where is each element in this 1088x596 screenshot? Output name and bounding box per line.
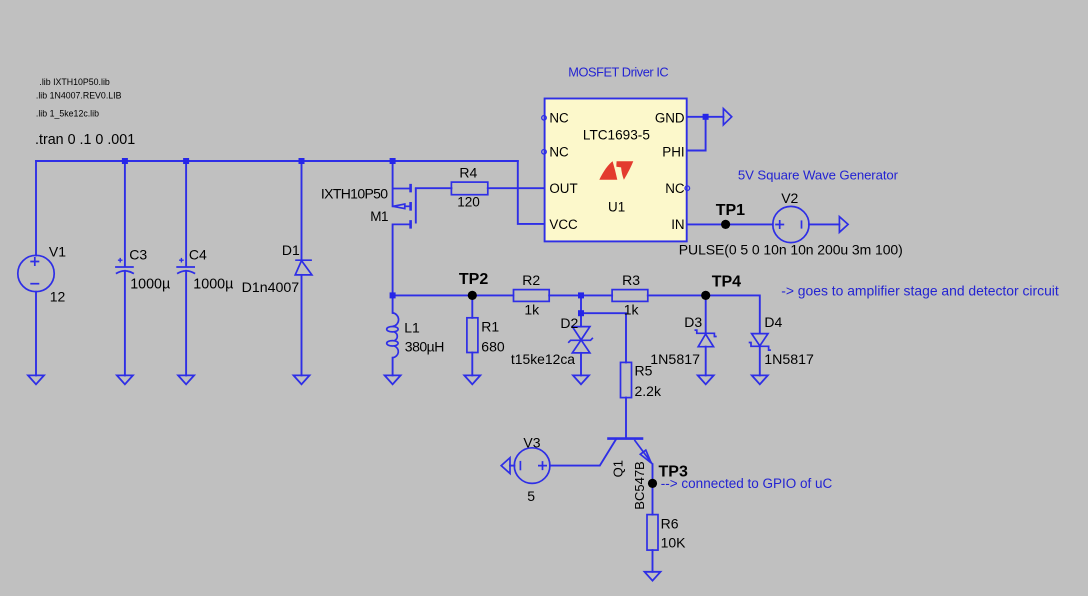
ground C4 [178, 375, 194, 384]
svg-text:5: 5 [527, 488, 535, 504]
svg-text:5V Square Wave Generator: 5V Square Wave Generator [738, 168, 899, 183]
testpoint TP3 [648, 479, 657, 488]
inductor L1 [387, 313, 399, 358]
svg-text:Q1: Q1 [611, 460, 626, 477]
svg-text:NC: NC [549, 145, 569, 160]
svg-text:1000µ: 1000µ [193, 277, 233, 293]
svg-text:M1: M1 [370, 209, 388, 224]
svg-text:R6: R6 [661, 515, 679, 531]
svg-text:R1: R1 [481, 319, 499, 335]
wire V1 top [35, 161, 37, 255]
svg-text:1k: 1k [624, 302, 640, 318]
svg-text:1k: 1k [524, 302, 540, 318]
junction node drain-L1-TP2row [390, 292, 396, 298]
junction node D2-R5 [578, 310, 584, 316]
svg-text:D1: D1 [282, 242, 300, 258]
junction node rail-C3 [122, 158, 128, 164]
transistor Q1 [607, 439, 652, 465]
wire R5 to Q1 collector [625, 398, 627, 439]
svg-text:MOSFET Driver IC: MOSFET Driver IC [568, 65, 668, 80]
ground D2 [573, 375, 589, 384]
svg-text:.tran 0 .1 0 .001: .tran 0 .1 0 .001 [35, 132, 135, 148]
resistor R1 [467, 318, 478, 353]
svg-text:NC: NC [549, 111, 569, 126]
wire Q1 emitter to TP3 to R6 [652, 464, 654, 514]
wire L1 bottom [392, 358, 394, 376]
testpoint TP2 [468, 291, 477, 300]
svg-text:V2: V2 [781, 190, 798, 206]
svg-text:t15ke12ca: t15ke12ca [511, 351, 575, 367]
wire L1 top [392, 295, 394, 313]
schottky diode D4 [749, 334, 771, 351]
svg-text:R2: R2 [522, 272, 540, 288]
junction node rail-D1 [299, 158, 305, 164]
svg-text:TP2: TP2 [459, 271, 488, 288]
capacitor C3 [115, 258, 134, 274]
wire PHI pin riser [687, 117, 706, 151]
svg-text:D2: D2 [560, 315, 578, 331]
wire GND pin to port arrow [687, 116, 724, 118]
svg-text:C3: C3 [129, 247, 147, 263]
junction node rail-M1 [390, 158, 396, 164]
svg-text:.lib 1_5ke12c.lib: .lib 1_5ke12c.lib [36, 108, 99, 118]
svg-text:R3: R3 [622, 272, 640, 288]
svg-text:PULSE(0 5 0 10n 10n 200u 3m 10: PULSE(0 5 0 10n 10n 200u 3m 100) [679, 242, 903, 258]
voltage source V3 [514, 448, 550, 484]
ground R6 [645, 572, 661, 581]
svg-text:D4: D4 [764, 314, 782, 330]
svg-text:IN: IN [671, 217, 684, 232]
svg-text:10K: 10K [661, 535, 687, 551]
wire V2 to port arrow [809, 223, 840, 225]
voltage source V2 [773, 206, 809, 242]
wire VCC branch [518, 161, 545, 224]
wire R3 to TP4 to D4 corner [648, 295, 760, 333]
wire C4 top [185, 161, 187, 267]
svg-text:120: 120 [457, 194, 480, 209]
svg-text:1N5817: 1N5817 [650, 352, 700, 368]
ground D3 [698, 375, 714, 384]
capacitor C4 [176, 258, 195, 274]
svg-text:D1n4007: D1n4007 [242, 280, 300, 296]
wire R1 bottom [471, 353, 473, 376]
port arrow V3 in [501, 458, 510, 474]
svg-text:680: 680 [481, 339, 505, 355]
wire IN pin to V2 [687, 223, 773, 225]
junction node D2 top [578, 292, 584, 298]
wire TP4 to D3 [705, 295, 707, 333]
wire V3 left port stub [510, 465, 514, 467]
svg-text:--> connected to GPIO of uC: --> connected to GPIO of uC [661, 476, 833, 491]
port arrow GND out [723, 109, 731, 125]
wire V1 bottom [35, 292, 37, 376]
resistor R5 [621, 362, 632, 397]
ground D4 [752, 375, 768, 384]
mosfet M1 [393, 184, 416, 229]
pin NC top-left [542, 116, 547, 121]
wire M1 drain to TP2 row [392, 224, 394, 295]
ground C3 [117, 375, 133, 384]
LT logo [599, 161, 633, 180]
wire R4 to OUT pin [488, 187, 545, 189]
svg-text:R4: R4 [459, 165, 477, 181]
diode D1 [295, 260, 312, 275]
svg-text:380µH: 380µH [405, 339, 444, 355]
wire M1 gate to R4 [416, 187, 452, 189]
svg-text:C4: C4 [189, 247, 207, 263]
svg-text:PHI: PHI [662, 145, 684, 160]
svg-text:1000µ: 1000µ [130, 277, 170, 293]
wire D1 bottom [301, 275, 303, 376]
wire D4 bottom [759, 346, 761, 375]
wire D2 riser [580, 295, 582, 326]
ground D1 [294, 375, 310, 384]
svg-text:NC: NC [665, 181, 685, 196]
svg-text:V1: V1 [49, 244, 66, 260]
svg-text:U1: U1 [608, 199, 625, 214]
junction node GND-PHI [703, 114, 709, 120]
testpoint TP1 [721, 220, 730, 229]
svg-text:BC547B: BC547B [632, 461, 647, 509]
wire R2 to R3 [549, 294, 612, 296]
IC U1 LTC1693-5 body [545, 99, 687, 242]
wire top 12V rail [36, 160, 518, 162]
svg-text:GND: GND [655, 111, 685, 126]
wire C3 bottom [124, 271, 126, 376]
wire node A to R5 [581, 313, 626, 362]
svg-text:.lib IXTH10P50.lib: .lib IXTH10P50.lib [39, 77, 110, 87]
svg-text:IXTH10P50: IXTH10P50 [321, 185, 388, 201]
svg-text:.lib 1N4007.REV0.LIB: .lib 1N4007.REV0.LIB [36, 90, 122, 100]
tvs diode D2 [568, 327, 593, 353]
resistor R2 [514, 290, 550, 302]
pin NC right [685, 186, 690, 191]
svg-text:1N5817: 1N5817 [764, 352, 814, 368]
svg-text:VCC: VCC [549, 217, 578, 232]
svg-text:TP1: TP1 [716, 202, 745, 219]
testpoint TP4 [701, 291, 710, 300]
svg-text:V3: V3 [523, 434, 540, 450]
svg-text:L1: L1 [404, 320, 420, 336]
wire V3 to Q1 base [550, 440, 616, 466]
svg-text:R5: R5 [635, 363, 653, 379]
resistor R3 [612, 290, 648, 302]
voltage source V1 [18, 255, 54, 291]
wire TP2 row left [393, 294, 514, 296]
wire D2 bottom [580, 353, 582, 376]
svg-text:D3: D3 [684, 314, 702, 330]
resistor R6 [647, 515, 658, 551]
wire C4 bottom [185, 271, 187, 376]
wire R6 bottom [652, 550, 654, 572]
pin NC mid-left [542, 150, 547, 155]
svg-text:OUT: OUT [549, 181, 577, 196]
ground L1 [385, 375, 401, 384]
ground R1 [464, 375, 480, 384]
resistor R4 [451, 182, 487, 195]
svg-text:2.2k: 2.2k [635, 383, 662, 399]
junction node rail-C4 [183, 158, 189, 164]
svg-text:12: 12 [50, 289, 66, 305]
svg-text:TP4: TP4 [712, 273, 741, 290]
svg-text:LTC1693-5: LTC1693-5 [583, 128, 650, 143]
wire D3 bottom [705, 347, 707, 376]
wire TP2 to R1 [471, 295, 473, 317]
wire D1 top [301, 161, 303, 260]
ground V1 [28, 375, 44, 384]
schottky diode D3 [695, 330, 717, 347]
svg-text:-> goes to amplifier stage and: -> goes to amplifier stage and detector … [781, 283, 1059, 299]
wire M1 source [392, 161, 394, 206]
port arrow V2 out [839, 217, 848, 233]
wire C3 top [124, 161, 126, 267]
